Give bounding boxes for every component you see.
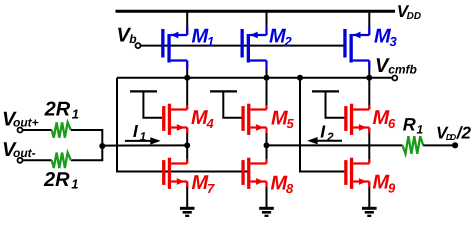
Vout- label [2,139,36,161]
wire: M2 drain riser to VDD [266,12,268,35]
wire: M7 source down to ground [186,182,188,209]
wire: M5 source down to M8 drain [266,128,268,164]
wire: M3 drain riser to VDD [368,12,370,35]
wire: M3 source to Vcmfb bus [368,61,370,79]
resistor 2R1 top [52,122,71,137]
transistor M7 [162,158,187,189]
label R1 [403,115,424,137]
node D: bus junction under M3 [366,75,372,81]
svg-text:1: 1 [71,177,78,192]
wire: M5/M8 junction to R1 (I2 wire) [267,144,403,146]
label M9 [373,172,397,196]
Vb label [117,24,137,46]
VDD rail [116,10,396,13]
svg-text:8: 8 [286,181,294,196]
svg-text:1: 1 [417,122,424,136]
node VDD/2 terminal [452,142,458,148]
svg-text:DD: DD [446,132,456,142]
gate T-bar of M6 [312,91,345,117]
wire: bus to M9 gate via mid vertical [300,78,345,172]
wire: bus down to M6 drain [368,78,370,110]
wire: bus down to M4 drain [186,78,188,110]
svg-text:2: 2 [326,130,334,144]
Vb terminal [136,43,141,48]
Vcmfb label [375,55,417,77]
resistor R1 [403,136,424,154]
label M5 [271,107,295,131]
current arrow I1 [125,137,161,144]
svg-text:6: 6 [388,116,396,131]
svg-text:5: 5 [287,116,295,131]
wire: M6 source down through I2 node to M9 drain [368,128,370,164]
wire: M1 drain riser to VDD [186,12,188,35]
gate T-bar of M4 [130,91,162,117]
wire: 2R1 top to sense node [71,130,102,160]
transistor M6 [344,104,369,135]
wire: M2 source to Vcmfb bus [266,61,268,79]
wire: M1 source to Vcmfb bus [186,61,188,79]
wire: R1 to VDD/2 terminal [423,144,455,146]
gate T-bar of M5 [210,91,242,117]
wire: Vb gate line to M1,M2,M3 gates [140,45,346,47]
svg-text:b: b [129,32,136,46]
VDD label [397,2,421,22]
node A: bus junction under M1 [184,75,190,81]
node sense: common-mode sense node [99,143,105,149]
ground under M7 [180,208,195,216]
current arrow I2 [307,137,342,144]
transistor M2 [241,27,267,70]
svg-text:4: 4 [206,116,215,131]
label M8 [271,172,295,196]
svg-text:9: 9 [388,180,396,195]
label M6 [373,107,397,131]
wire: M4 source down to M7 drain [186,128,188,164]
wire: bus down to M5 drain [266,78,268,110]
svg-text:2R: 2R [44,99,71,121]
wire: Vout+ to 2R1 [22,129,51,131]
svg-text:1: 1 [207,34,214,49]
transistor M1 [161,27,187,70]
svg-text:out+: out+ [13,116,39,130]
svg-text:1: 1 [72,106,79,121]
wire: M8 source down to ground [266,182,268,209]
wire: M9 source down to ground [368,182,370,209]
transistor M5 [241,104,266,135]
svg-text:R: R [403,115,416,135]
label I2 [320,122,334,145]
label I1 [133,121,147,144]
svg-text:3: 3 [390,34,398,49]
label M3 [374,26,398,50]
label M2 [269,26,293,50]
wire: Vcmfb bus [117,77,392,79]
node F: junction at M5/M8 [264,142,270,148]
label 2R1 top [44,99,79,122]
transistor M3 [343,27,369,70]
wire: sense node to M4/M7 junction (I1 wire) [102,144,187,146]
svg-text:2: 2 [284,34,293,49]
transistor M9 [344,158,369,189]
svg-text:cmfb: cmfb [388,62,417,76]
Vout+ label [2,108,39,130]
Vout- terminal [18,158,23,163]
wire: left boundary from bus down to bottom gate line of M7 M8 [117,78,250,172]
Vcmfb terminal [392,76,397,81]
transistor M8 [241,158,266,189]
svg-text:out-: out- [13,146,36,160]
svg-text:2R: 2R [43,169,70,191]
Vout+ terminal [18,128,23,133]
node C: bus junction at mid vertical [297,75,303,81]
ground under M8 [259,208,274,216]
transistor M4 [162,104,187,135]
label VDD/2 [436,124,472,143]
wire: Vout- to 2R1 [22,159,51,161]
node B: bus junction under M2 [264,75,270,81]
resistor 2R1 bottom [52,153,71,168]
label M1 [192,26,215,50]
node E: junction at M4/M7 [184,142,190,148]
label M4 [191,107,215,131]
label M7 [192,172,216,196]
ground under M9 [362,208,377,216]
svg-text:/2: /2 [456,124,472,143]
svg-text:7: 7 [207,181,215,196]
svg-text:DD: DD [407,11,421,22]
label 2R1 bottom [43,169,78,192]
